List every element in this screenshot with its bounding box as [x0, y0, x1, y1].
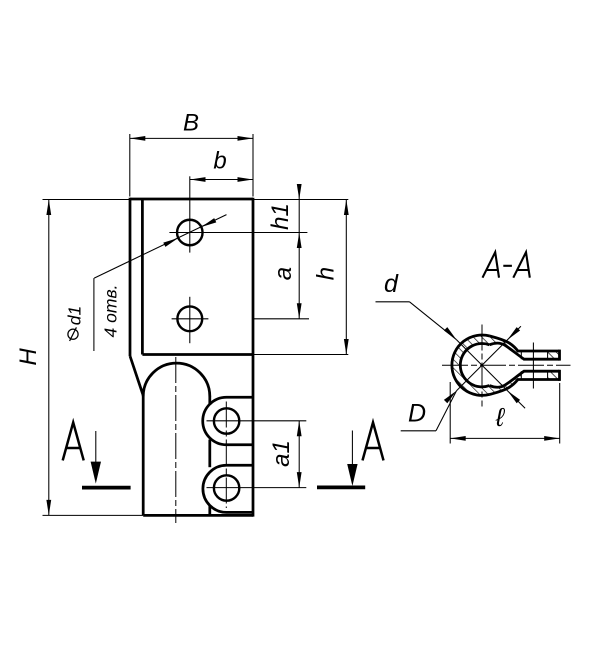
lower flange end cap	[558, 370, 561, 381]
dimension a1 arrow top	[297, 421, 302, 437]
svg-text:B: B	[183, 110, 199, 137]
cylinder centerline	[175, 357, 177, 523]
bolt hole edge upper right	[547, 352, 549, 360]
hole diameter arrow lower	[163, 238, 178, 247]
section hatch fill	[452, 335, 560, 395]
boss holes centerline	[225, 402, 227, 509]
dimension D arrow upper	[508, 327, 521, 340]
leader shelf line	[93, 278, 95, 351]
svg-text:ℓ: ℓ	[495, 402, 506, 432]
section horizontal centerline	[442, 364, 571, 366]
cylinder top arc	[143, 363, 210, 396]
dimension a1 arrow bottom	[297, 472, 302, 488]
lower flange inner curve	[489, 371, 559, 387]
section vertical centerline	[481, 325, 483, 407]
boss hole 2	[214, 475, 239, 500]
section label A left	[63, 422, 84, 460]
boss 2 outline	[203, 465, 253, 512]
cylinder right edge middle segment	[208, 440, 211, 468]
bolt hole edge upper left	[520, 352, 522, 360]
cylinder left edge	[142, 396, 145, 516]
svg-text:4 отв.: 4 отв.	[100, 285, 120, 338]
part top edge	[130, 198, 253, 201]
label D leader shelf	[401, 430, 436, 432]
top edge extension left	[43, 199, 131, 201]
section cut stroke right	[317, 485, 365, 489]
dimension l line	[450, 437, 560, 439]
dimension l extension left	[449, 382, 451, 444]
svg-text:h1: h1	[267, 203, 294, 230]
dimension H arrow top	[46, 200, 51, 216]
dimension h1-a line	[298, 187, 300, 319]
bolt hole edge lower left	[520, 371, 522, 379]
dimension h1-a shared arrow	[297, 233, 302, 249]
cylinder right edge upper segment	[208, 396, 211, 405]
cylinder right edge lower segment	[208, 506, 211, 515]
dimension l arrow left	[450, 436, 466, 441]
dimension B arrow left	[130, 136, 146, 141]
svg-text:a1: a1	[268, 440, 295, 467]
hole 2 vertical centerline	[189, 297, 191, 343]
dimension H line	[48, 200, 50, 516]
label D leader	[436, 391, 457, 431]
part bottom edge	[143, 514, 253, 517]
left chamfer edge	[130, 356, 143, 396]
section title A-A	[483, 252, 500, 278]
dimension B arrow right	[238, 136, 254, 141]
label d leader shelf	[376, 301, 410, 303]
dimension l extension right	[559, 383, 561, 444]
dimension b line	[190, 179, 253, 181]
label d leader	[410, 302, 457, 340]
hole 1	[177, 220, 203, 246]
hole diameter arrow upper	[201, 218, 216, 227]
dimension h arrow bottom	[344, 339, 349, 355]
dimension a arrow bottom	[297, 303, 302, 319]
hole 1 vertical centerline	[189, 176, 191, 252]
svg-text:H: H	[15, 348, 42, 366]
dimension d arrow upper	[444, 327, 457, 340]
section arrow line left	[95, 431, 97, 471]
upper flange inner curve	[489, 343, 559, 359]
plate inner left line	[141, 199, 144, 355]
dimension B extension left	[129, 134, 131, 197]
section cut stroke left	[82, 486, 131, 490]
dimension d diagonal line	[457, 340, 526, 409]
lower flange outer curve	[490, 380, 560, 395]
boss hole 1	[214, 408, 239, 433]
section label A right	[363, 422, 384, 460]
upper flange outer curve	[490, 336, 560, 351]
boss 1 outline	[203, 397, 253, 445]
section arrow head left	[91, 462, 101, 484]
part right edge	[252, 198, 255, 517]
hole 1 horizontal centerline	[169, 232, 307, 234]
dimension l arrow right	[544, 436, 560, 441]
svg-text:D: D	[408, 400, 426, 428]
plate bottom edge	[142, 353, 253, 356]
dimension H arrow bottom	[46, 500, 51, 516]
dimension d arrow lower	[508, 391, 521, 404]
plate bottom extension right	[253, 354, 348, 356]
dimension b arrow left	[190, 177, 206, 182]
dimension b arrow right	[238, 177, 254, 182]
bolt hole centerline	[532, 343, 534, 389]
dimension D arrow lower	[444, 391, 457, 404]
section arrow head right	[347, 464, 357, 486]
part left edge	[129, 198, 132, 356]
dimension h arrow top	[344, 200, 349, 216]
svg-text:a: a	[270, 267, 297, 280]
dimension h line	[345, 200, 347, 355]
boss hole 2 centerline	[207, 487, 307, 489]
svg-text:d: d	[384, 270, 399, 298]
hole 2	[177, 306, 202, 331]
svg-text:d1: d1	[65, 306, 85, 325]
section arrow line right	[351, 431, 353, 474]
dimension B line	[130, 137, 253, 139]
dimension D diagonal line	[457, 326, 521, 390]
top edge extension right	[253, 199, 348, 201]
section inner ring arc	[460, 344, 489, 387]
dimension h1 arrow top	[297, 184, 302, 200]
boss hole 1 centerline	[207, 420, 307, 422]
dimension a1 line	[298, 421, 300, 488]
section outer ring arc	[452, 335, 490, 395]
upper flange end cap	[558, 350, 561, 361]
svg-text:h: h	[313, 267, 340, 280]
bolt hole edge lower right	[547, 371, 549, 379]
bottom edge extension left	[43, 514, 144, 516]
hole 2 horizontal centerline	[172, 318, 209, 320]
label phi-d1 symbol	[68, 329, 78, 339]
svg-text:b: b	[213, 148, 226, 175]
hole diameter leader line	[94, 215, 226, 279]
hole 2 extension line	[253, 318, 309, 320]
dimension B extension right	[252, 134, 254, 197]
